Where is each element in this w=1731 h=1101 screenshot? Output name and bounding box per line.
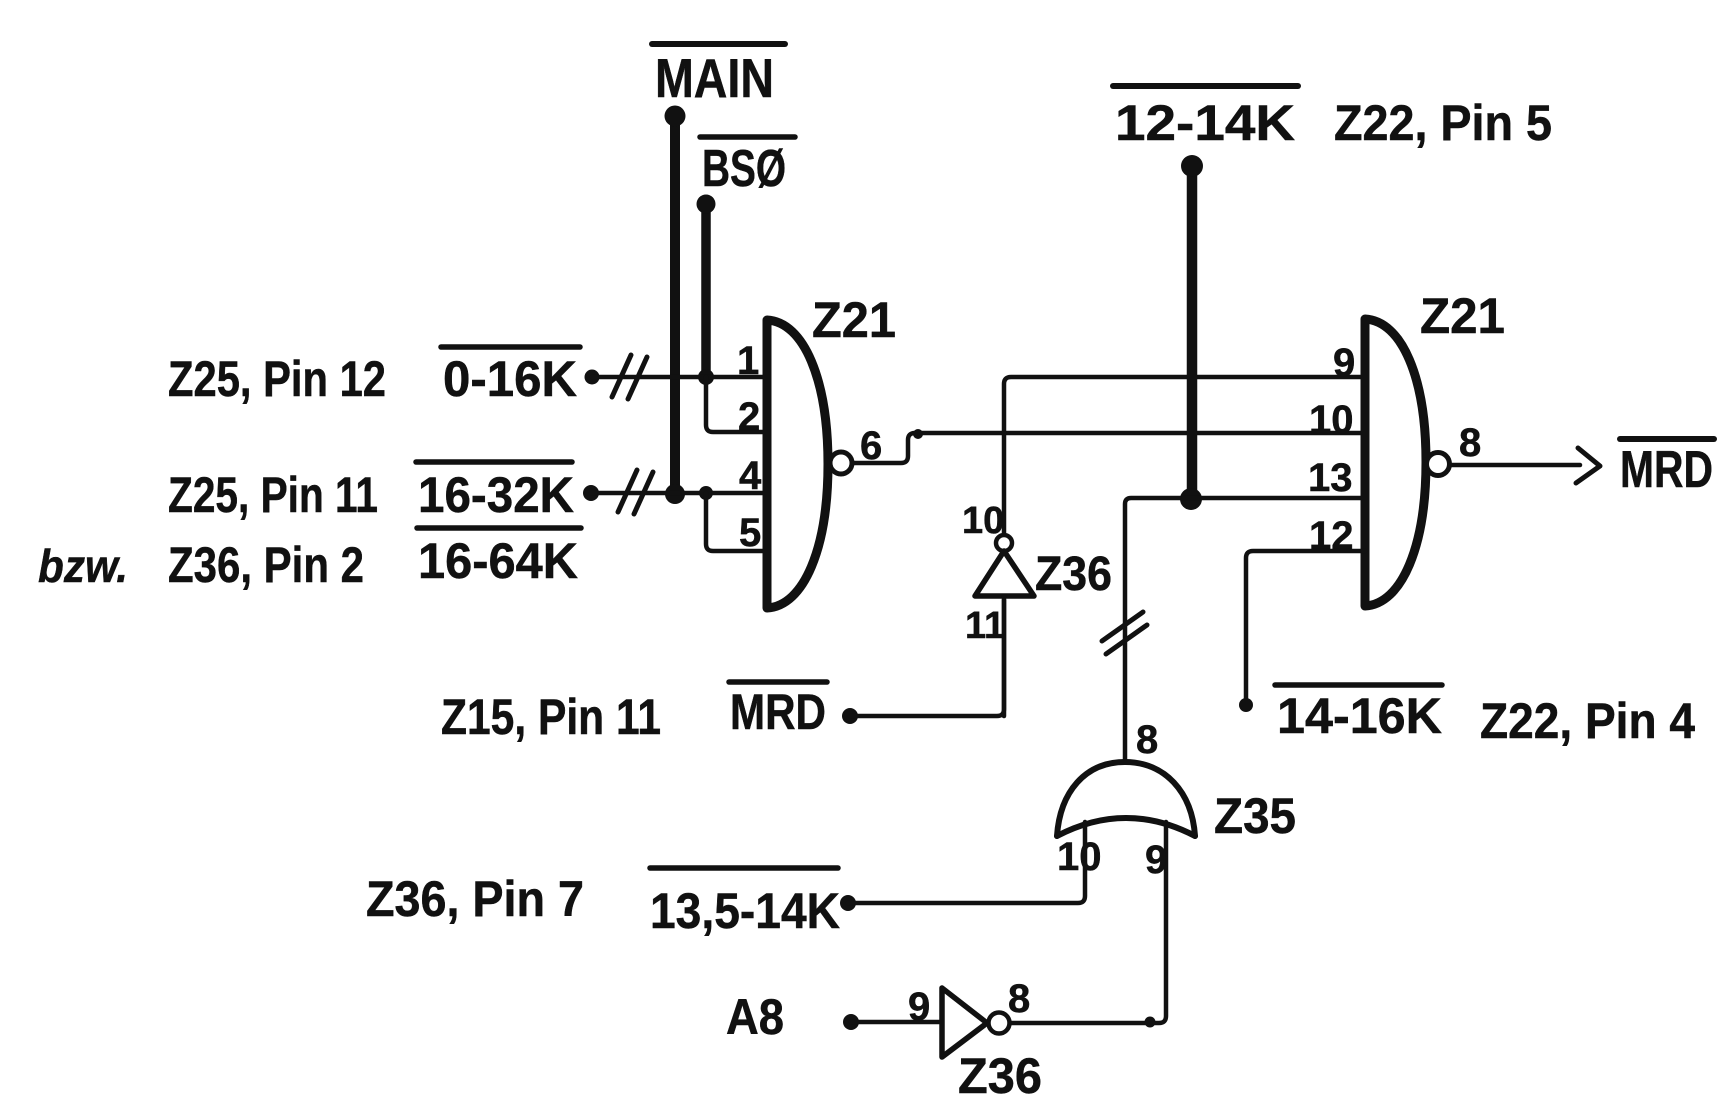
svg-text:MAIN: MAIN [655,47,774,109]
wire pin 13 from Z35 output [1102,498,1365,762]
inverter Z36 middle [975,535,1034,716]
net 16-64K label overline [417,525,581,531]
wire pin5 jumper [706,493,767,551]
wire BS0 vertical [697,195,716,386]
net 12-14K label overline [1113,83,1298,89]
svg-text:10: 10 [962,500,1004,542]
wire 16-32K (pin 4) [583,470,767,514]
svg-text:Z15, Pin 11: Z15, Pin 11 [441,689,661,745]
svg-text:11: 11 [965,605,1005,647]
wire 13,5-14K to Z35 pin 10 [840,822,1085,911]
svg-text:Z21: Z21 [812,292,896,348]
wire 12-14K vertical [1180,155,1203,510]
svg-text:Z21: Z21 [1420,288,1505,344]
nand gate Z21 right [1365,319,1450,606]
wire A8 input [843,1014,942,1030]
svg-text:bzw.: bzw. [38,540,128,592]
svg-text:4: 4 [739,454,762,498]
svg-text:8: 8 [1459,421,1481,465]
svg-text:MRD: MRD [730,684,826,740]
wire 0-16K (pin 1) [585,355,768,399]
net 14-16K label overline [1275,682,1442,688]
svg-text:14-16K: 14-16K [1277,688,1442,744]
net BS0 label [700,134,795,140]
svg-text:16-64K: 16-64K [418,533,578,589]
svg-text:BSØ: BSØ [702,140,786,198]
svg-text:Z36: Z36 [958,1048,1042,1101]
or gate Z35 [1057,762,1195,836]
wire MRD input [842,600,1004,724]
nand gate Z21 left [767,320,852,608]
svg-text:Z35: Z35 [1214,788,1296,844]
svg-text:Z36: Z36 [1035,548,1112,601]
svg-text:9: 9 [1333,341,1355,385]
svg-text:Z22, Pin 5: Z22, Pin 5 [1334,95,1552,151]
svg-text:MRD: MRD [1620,441,1713,499]
net MRD out label overline [1620,436,1714,442]
svg-text:Z25, Pin 11: Z25, Pin 11 [168,467,378,523]
svg-text:Z25, Pin 12: Z25, Pin 12 [168,351,386,407]
svg-text:Z36, Pin 7: Z36, Pin 7 [366,871,584,927]
svg-text:9: 9 [908,985,930,1029]
svg-text:0-16K: 0-16K [443,351,577,407]
wire MAIN vertical [665,106,686,505]
wire pin2 jumper [706,377,767,432]
svg-text:12-14K: 12-14K [1115,95,1295,151]
wire pin 12 to 14-16K [1239,551,1365,712]
svg-text:1: 1 [737,339,759,383]
svg-text:10: 10 [1309,398,1354,442]
wire pin 9 line (inverter output to right gate) [1004,377,1365,534]
svg-text:Z36, Pin 2: Z36, Pin 2 [168,537,364,593]
wire MRD output arrow [1450,448,1600,483]
wire output 6 of left gate to pin 10 [852,433,1365,463]
net MRD left label overline [729,679,827,685]
net 0-16K label overline [441,344,580,350]
svg-text:6: 6 [860,424,882,468]
svg-text:13,5-14K: 13,5-14K [650,883,840,939]
svg-text:5: 5 [739,511,761,555]
net 16-32K label overline [416,459,572,465]
svg-text:16-32K: 16-32K [418,467,574,523]
svg-text:Z22, Pin 4: Z22, Pin 4 [1480,693,1695,749]
svg-text:8: 8 [1136,718,1158,762]
wire Z35 pin 9 from bottom inverter [1010,822,1166,1028]
svg-text:12: 12 [1309,514,1354,558]
svg-text:8: 8 [1008,977,1030,1021]
svg-text:A8: A8 [726,989,784,1045]
svg-text:2: 2 [738,395,760,439]
svg-text:10: 10 [1057,835,1102,879]
svg-text:13: 13 [1308,456,1353,500]
inverter Z36 bottom [942,988,1010,1057]
net MAIN label [652,41,785,47]
svg-text:9: 9 [1145,838,1167,882]
net 13,5-14K label overline [650,865,838,871]
